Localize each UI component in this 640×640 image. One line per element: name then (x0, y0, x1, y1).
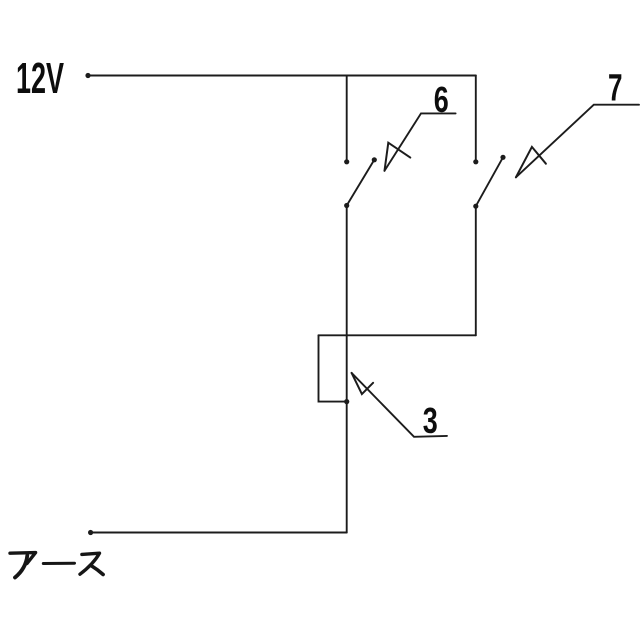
switch S7 blade (476, 157, 503, 206)
node switch 7 lower contact (473, 204, 478, 209)
svg-text:7: 7 (608, 68, 623, 110)
switch S6 blade (347, 160, 375, 206)
label 6 arrowhead (385, 143, 411, 171)
node 12V terminal dot (85, 73, 90, 78)
component 3 box (load) (319, 335, 347, 401)
wire horizontal joining switch 7 branch to component 3 (319, 334, 476, 336)
wire bottom ground rail (91, 532, 347, 534)
wire main vertical from switch 6 to ground run (346, 206, 348, 533)
label 7 leader line (516, 105, 639, 178)
node switch 7 upper contact (473, 159, 478, 164)
node switch 6 blade pivot dot (372, 157, 377, 162)
wire from switch 7 down (475, 206, 477, 335)
katakana SU (ス) (80, 553, 100, 574)
katakana long vowel bar (ー) (43, 562, 74, 565)
node switch 7 blade pivot dot (500, 155, 505, 160)
label 3 arrowhead (352, 373, 374, 394)
node ground terminal dot (88, 530, 93, 535)
node junction at component 3 bottom (344, 399, 349, 404)
node switch 6 upper contact (344, 159, 349, 164)
katakana A (ア) (10, 553, 36, 564)
wire 12V top rail (88, 75, 476, 77)
node switch 6 lower contact (344, 203, 349, 208)
svg-text:12V: 12V (16, 54, 64, 103)
label 3 leader line (352, 373, 447, 437)
wire branch down to switch 7 (475, 76, 477, 162)
svg-text:3: 3 (423, 400, 438, 441)
wire branch down to switch 6 (346, 76, 348, 162)
label ground アース (katakana, drawn as strokes) (10, 553, 103, 578)
label 6 leader line (385, 113, 456, 170)
label 7 arrowhead (516, 147, 546, 177)
